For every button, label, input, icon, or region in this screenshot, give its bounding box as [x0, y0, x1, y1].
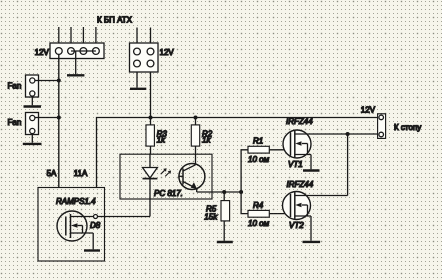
svg-text:12V: 12V	[361, 106, 376, 115]
connector X3 К стопу	[378, 114, 386, 139]
light arrows	[161, 168, 171, 176]
wire Q1 source to ground	[92, 233, 94, 249]
wire VT1 source down	[310, 155, 312, 170]
ground (inside RAMPS)	[84, 249, 100, 251]
svg-text:RAMPS1.4: RAMPS1.4	[56, 197, 96, 206]
LED inside U1	[143, 154, 158, 216]
resistor R5	[221, 192, 230, 241]
svg-text:Fan: Fan	[8, 118, 22, 127]
ground (under X1)	[67, 51, 84, 75]
node rail-R3	[149, 116, 153, 120]
connector X2 2x2 12V	[130, 28, 159, 73]
phototransistor inside U1	[179, 164, 205, 193]
transistor Q1 inside RAMPS	[57, 211, 94, 241]
wire VT1 drain to connector	[311, 133, 378, 135]
svg-text:К БП АТХ: К БП АТХ	[97, 16, 133, 25]
svg-text:IRFZ44: IRFZ44	[287, 180, 314, 189]
svg-text:1k: 1k	[157, 136, 166, 145]
wire VT2 source down	[310, 216, 312, 241]
svg-text:R1: R1	[253, 137, 263, 146]
svg-text:PC 817.: PC 817.	[154, 189, 183, 198]
resistor R3	[146, 118, 154, 155]
node rail-R2	[194, 116, 198, 120]
ground (under X2)	[130, 88, 146, 90]
resistor R2	[191, 118, 199, 165]
wire X2 right column down to 12V rail	[150, 72, 152, 118]
wire Fan1 to main vertical	[35, 80, 59, 82]
ground (under Fan2)	[23, 135, 42, 144]
svg-text:К стопу: К стопу	[394, 123, 421, 132]
resistor R4	[248, 210, 291, 217]
node junction Fan1	[57, 79, 61, 83]
wire X2 left column to ground	[136, 72, 138, 88]
wire VT2 drain up to junction	[347, 134, 349, 196]
svg-text:IRFZ44: IRFZ44	[286, 117, 313, 126]
connector X1 К БП ATX 4-pin	[50, 27, 104, 59]
ground (VT2 source)	[303, 241, 321, 243]
pin D8 (open circle)	[94, 215, 98, 219]
ground (under R5)	[217, 241, 233, 243]
svg-text:VT2: VT2	[289, 221, 304, 230]
optocoupler U1 PC817 box	[120, 154, 212, 199]
module A1 RAMPS1.4 box	[38, 188, 105, 262]
connector Fan1	[26, 75, 39, 97]
wire gate branch vertical	[241, 150, 248, 214]
node drains junction	[346, 132, 350, 136]
wire emitter rail	[197, 191, 241, 193]
transistor VT1 IRFZ44	[283, 130, 311, 158]
svg-text:12V: 12V	[35, 48, 50, 57]
svg-text:R4: R4	[253, 201, 264, 210]
wire Fan2 to main vertical	[35, 117, 59, 119]
wire D8 to LED cathode	[98, 216, 151, 218]
svg-text:12V: 12V	[160, 48, 175, 57]
resistor R1	[248, 146, 291, 153]
svg-text:5A: 5A	[47, 169, 57, 178]
ground (VT1 source)	[303, 169, 320, 171]
transistor VT2 IRFZ44	[283, 192, 348, 220]
wire main left vertical (ATX pin1 to RAMPS 5A)	[58, 55, 60, 188]
wire 12V rail	[97, 118, 378, 188]
svg-text:D8: D8	[90, 221, 101, 230]
ground (under Fan1)	[24, 97, 42, 107]
node emitter-gates	[239, 190, 243, 194]
svg-text:1k: 1k	[202, 136, 211, 145]
node emitter-R5	[222, 190, 226, 194]
svg-text:15k: 15k	[204, 213, 218, 222]
svg-text:Fan: Fan	[8, 82, 22, 91]
svg-text:VT1: VT1	[288, 160, 303, 169]
svg-text:10 ом: 10 ом	[248, 155, 270, 164]
svg-text:11A: 11A	[74, 169, 88, 178]
node junction Fan2	[57, 116, 61, 120]
svg-text:10 ом: 10 ом	[248, 219, 270, 228]
connector Fan2	[26, 113, 39, 135]
